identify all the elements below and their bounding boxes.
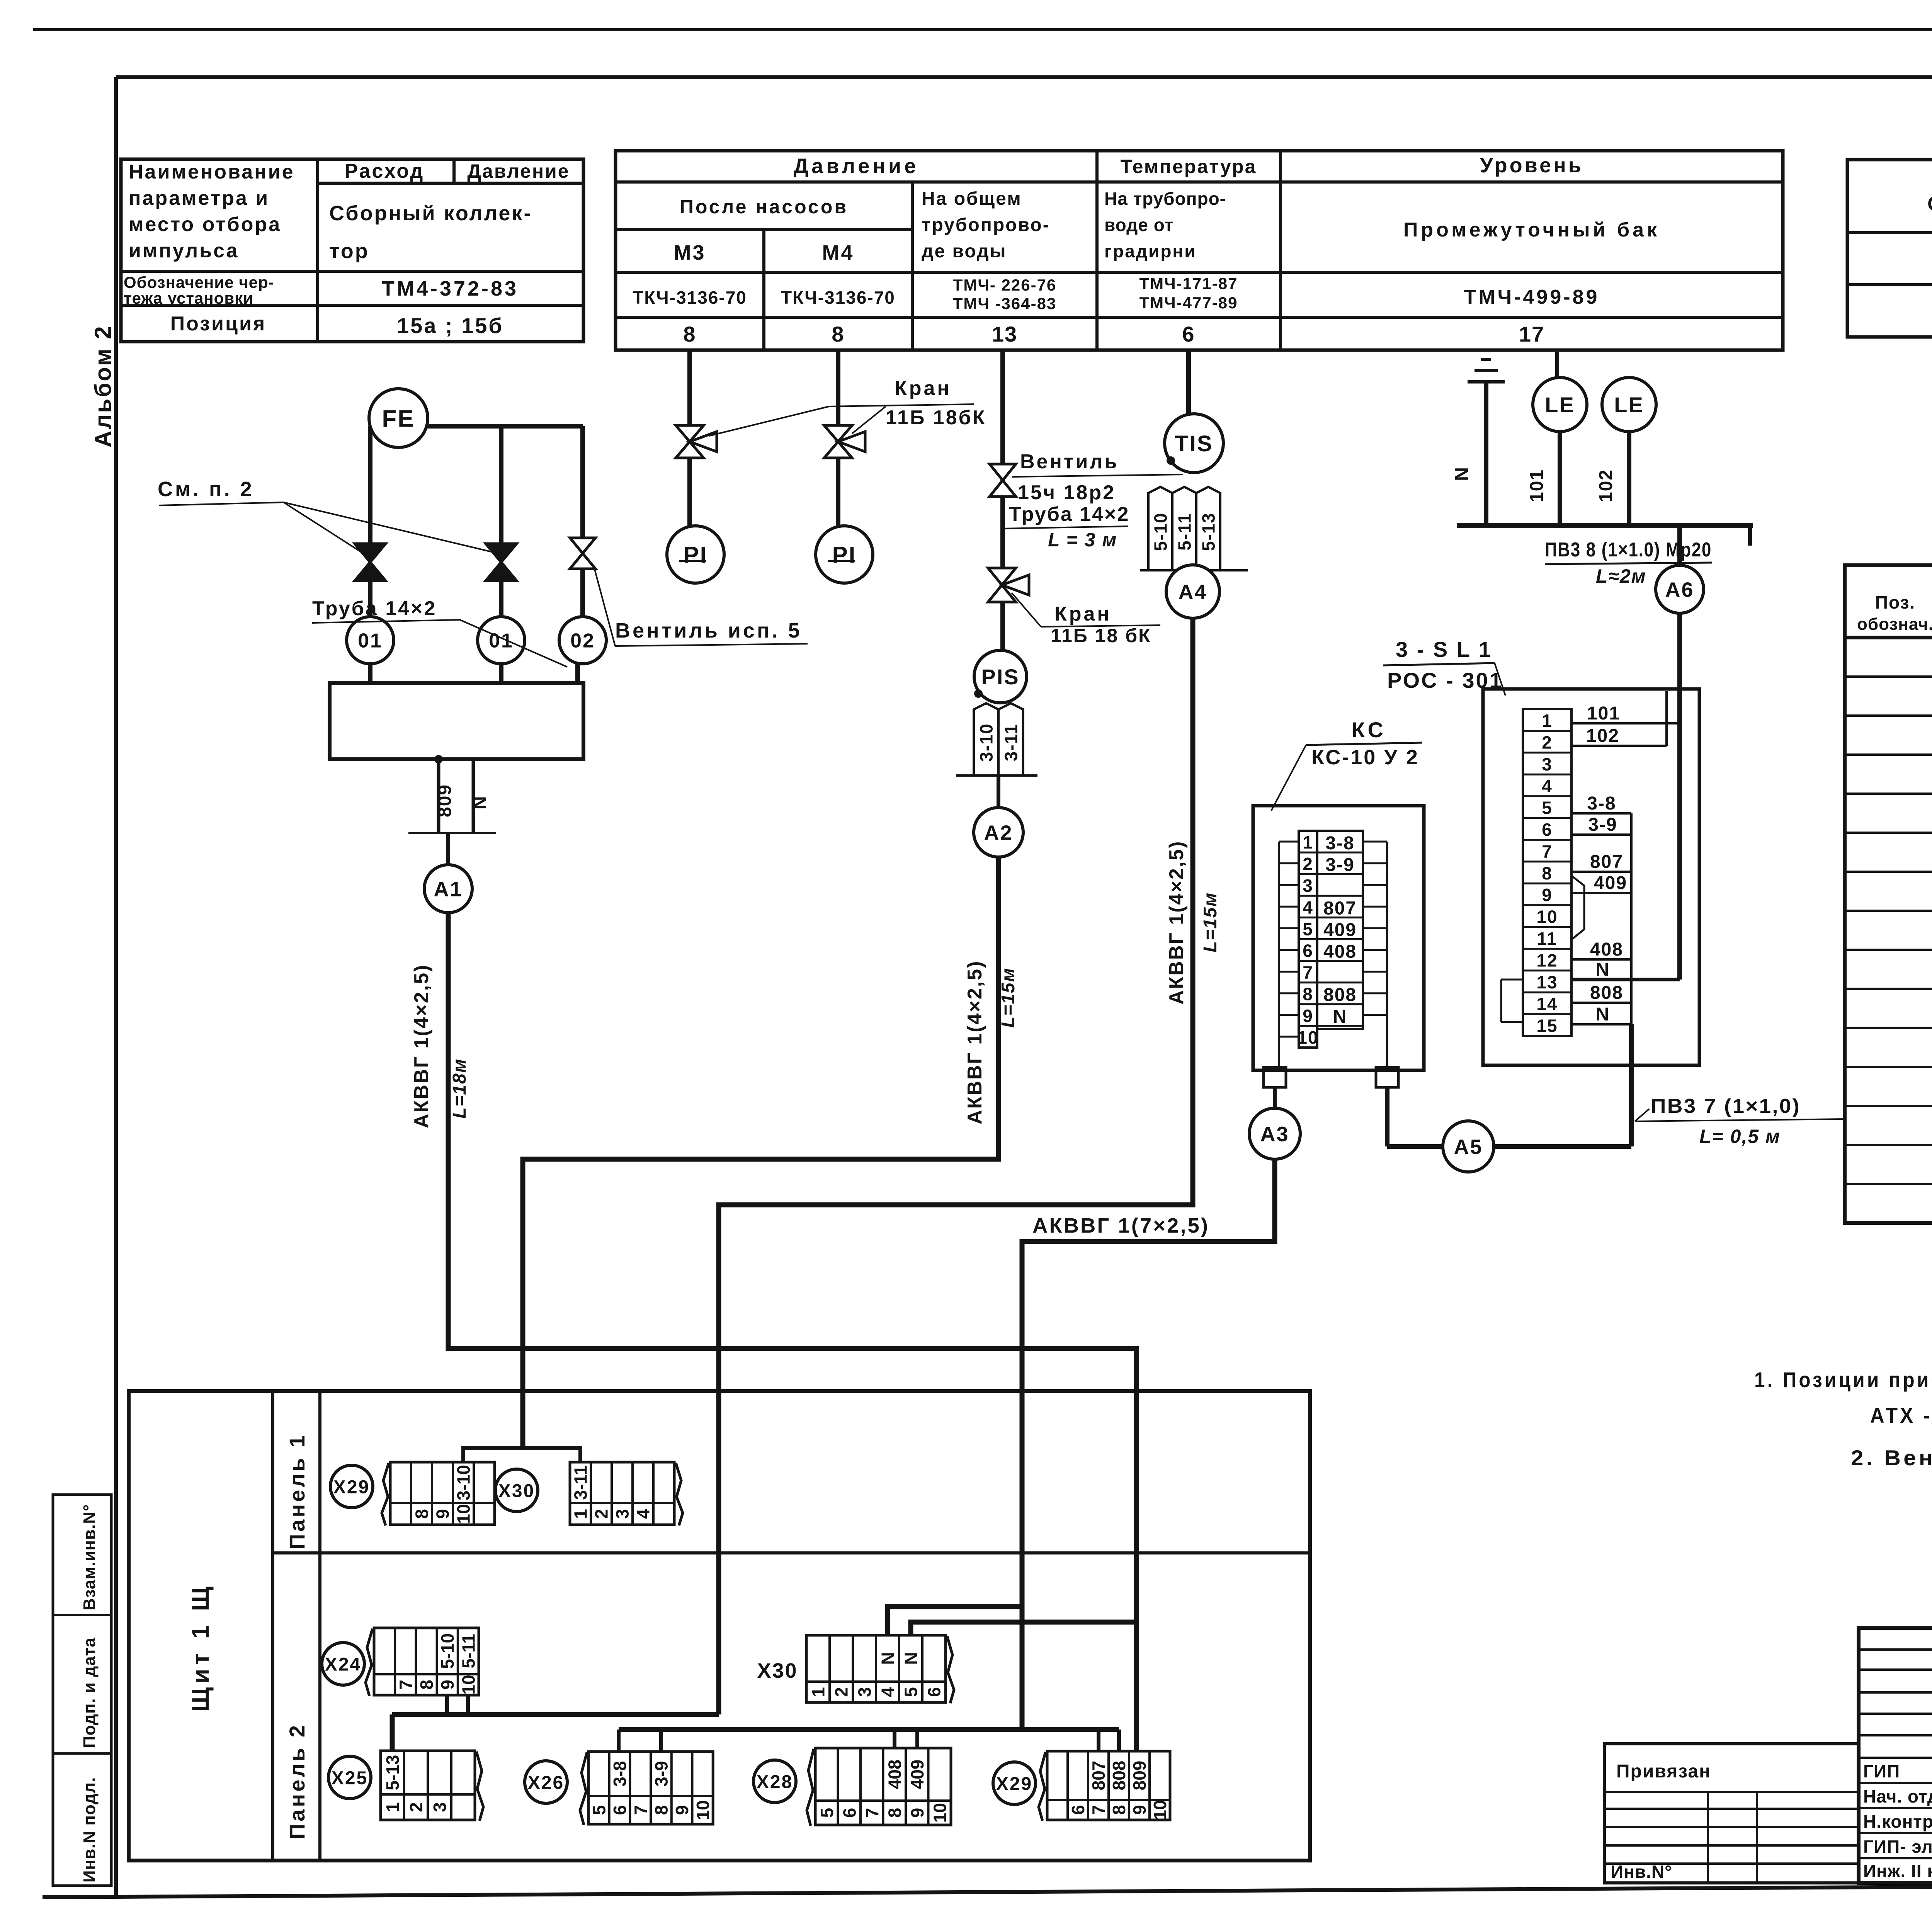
wire A3 panel bus [619,1727,1119,1732]
flow transmitter box [330,683,583,759]
svg-text:А3: А3 [1260,1122,1289,1146]
cable marker A3 [1249,1108,1300,1159]
valve filled 2 (poz 15b) [486,544,517,581]
svg-text:Уровень: Уровень [1480,154,1583,177]
svg-text:L = 3 м: L = 3 м [1048,529,1117,551]
instrument TIS [1165,414,1223,473]
svg-text:1. Позиции приборов указаны: 1. Позиции приборов указаны согласно схе… [1754,1367,1932,1392]
svg-text:обознач.: обознач. [1857,615,1932,634]
svg-text:7: 7 [631,1805,651,1815]
svg-text:PI: PI [832,542,857,568]
svg-text:1: 1 [808,1687,828,1697]
svg-text:1: 1 [1542,711,1553,731]
connector circle X24 [322,1643,364,1685]
svg-text:Температура: Температура [1121,156,1257,177]
wire gradirnya impulse down [1186,350,1191,415]
svg-text:13: 13 [992,322,1017,346]
wire stub X24 5-10 [445,1695,449,1714]
svg-text:Х29: Х29 [333,1477,370,1497]
svg-text:6: 6 [839,1808,859,1818]
svg-text:2: 2 [1542,732,1553,752]
svg-text:Вентиль исп. 5: Вентиль исп. 5 [615,619,802,642]
wire KC to 3-SL1 horizontal [1387,1144,1631,1149]
svg-text:Труба 14×2: Труба 14×2 [312,597,437,620]
wire FE header line [370,424,583,429]
ventil isp5 underline [615,644,808,646]
svg-text:8: 8 [1109,1805,1129,1815]
truba mid underline [1001,526,1128,529]
wire 01a to box [368,664,372,683]
PI underline b [828,560,855,562]
PV3 7 arrow [1635,1109,1649,1121]
svg-text:Труба 14×2: Труба 14×2 [1009,503,1129,526]
svg-text:Кран: Кран [895,377,952,400]
wire M3 to PI [687,458,692,526]
svg-text:9: 9 [907,1808,927,1818]
svg-text:10: 10 [693,1800,713,1820]
svg-text:N: N [878,1652,898,1665]
3-SL1 terminal strip [1523,709,1571,1036]
ground bus line [1457,523,1753,528]
svg-text:9: 9 [437,1680,457,1690]
frame bottom line [43,1883,1932,1897]
svg-text:Промежуточный бак: Промежуточный бак [1403,219,1660,241]
svg-text:1: 1 [1303,832,1313,852]
wire A1 branch N to X30 [911,1622,1136,1635]
sheet top border line [33,28,1932,31]
svg-text:L= 0,5 м: L= 0,5 м [1699,1126,1781,1147]
svg-text:9: 9 [1303,1006,1313,1026]
svg-text:3: 3 [430,1802,450,1812]
3-SL1 left tick r15 [1501,1021,1523,1023]
svg-text:10: 10 [1536,907,1558,927]
wire to A1 [446,833,450,866]
svg-text:PI: PI [684,542,708,568]
3-SL1 leader [1495,663,1505,696]
svg-text:3-11: 3-11 [1001,724,1021,762]
wire gland to A3 [1273,1087,1277,1109]
svg-text:Давление: Давление [467,160,570,182]
svg-text:Вентиль: Вентиль [1020,451,1119,473]
leader Sm p 2 underline [159,502,284,505]
svg-text:809: 809 [1129,1761,1150,1791]
svg-text:место отбора: место отбора [129,213,281,236]
table: parts list (poz/naimenovanie/kol/primechanie) [1845,565,1932,1223]
ventil underline [1012,474,1183,477]
svg-text:3-10: 3-10 [976,723,997,762]
svg-text:9: 9 [672,1805,692,1815]
svg-text:А1: А1 [434,878,463,901]
svg-text:4: 4 [633,1509,653,1519]
svg-text:10: 10 [1297,1027,1318,1048]
svg-text:5-13: 5-13 [383,1755,403,1790]
wire cable A3 run [1022,1159,1275,1730]
svg-text:7: 7 [1303,963,1313,983]
tag box 3-11 [998,703,1023,776]
svg-text:L=15м: L=15м [1200,892,1221,952]
valve open isp.5 [570,538,595,569]
kran underline [829,404,974,406]
svg-text:7: 7 [862,1808,882,1818]
svg-text:М3: М3 [673,241,706,264]
svg-text:Инж. II к.: Инж. II к. [1863,1861,1932,1881]
svg-text:РОС - 301: РОС - 301 [1387,668,1503,692]
svg-text:5-11: 5-11 [1175,513,1195,551]
svg-text:7: 7 [1542,841,1553,861]
svg-text:808: 808 [1323,985,1357,1005]
wire A2 jog to X29/X30 [463,1448,580,1462]
svg-text:8: 8 [1303,984,1313,1004]
svg-text:9: 9 [433,1509,453,1519]
svg-text:См. п. 2: См. п. 2 [158,478,254,501]
instrument LE 2 [1602,378,1656,432]
svg-text:1: 1 [383,1802,403,1812]
svg-text:А2: А2 [984,821,1013,844]
kran mid underline [1041,625,1160,627]
tick line under 809/N [408,832,496,834]
svg-text:Х24: Х24 [325,1654,361,1675]
three-way cock 11B18bk M3 [676,425,717,458]
svg-text:10: 10 [1150,1800,1170,1820]
wire to A2 [997,776,1000,808]
3-SL1 POC-301 box [1483,689,1699,1065]
svg-text:ТМЧ-171-87: ТМЧ-171-87 [1139,274,1238,293]
terminal block X29 panel1 [382,1462,495,1526]
tick under 5-1x [1140,569,1248,571]
KC terminal strip [1279,831,1387,1048]
svg-text:ТКЧ-3136-70: ТКЧ-3136-70 [781,287,895,308]
svg-text:АТХ - 2, АТХ - 3.: АТХ - 2, АТХ - 3. [1870,1403,1932,1427]
svg-text:6: 6 [1182,322,1195,346]
kran mid leader [1012,593,1041,627]
svg-text:8: 8 [1542,863,1553,883]
svg-text:4: 4 [1542,776,1553,796]
svg-text:L=18м: L=18м [449,1058,470,1119]
frame left line [114,77,118,1896]
svg-text:102: 102 [1596,469,1616,502]
svg-text:Давление: Давление [794,155,919,178]
three-way cock 11B18bK mid [988,568,1029,602]
svg-text:02: 02 [570,630,595,652]
svg-text:L≈2м: L≈2м [1596,565,1646,587]
terminal block X29 bottom [1039,1751,1170,1821]
svg-text:де воды: де воды [922,241,1007,262]
cabinet divider 2 [318,1391,321,1861]
wire LE2 down [1627,432,1631,526]
junction dot at box [435,756,442,763]
wire M3 impulse down [687,350,692,428]
svg-text:Х29: Х29 [996,1774,1032,1794]
svg-text:ТМ4-372-83: ТМ4-372-83 [382,277,519,300]
ground symbol [1468,359,1505,382]
svg-text:408: 408 [1323,942,1357,962]
svg-text:Нач. отд.: Нач. отд. [1863,1786,1932,1806]
svg-text:807: 807 [1088,1761,1109,1791]
wire M4 impulse down [836,350,840,428]
svg-text:ТМЧ-499-89: ТМЧ-499-89 [1464,286,1600,308]
svg-text:На трубопро-: На трубопро- [1104,189,1226,209]
svg-text:3-9: 3-9 [1588,815,1617,835]
panel divider line [273,1551,1310,1554]
svg-text:Инв.N подл.: Инв.N подл. [80,1777,99,1883]
svg-text:12: 12 [1536,950,1558,970]
cable marker A1 [424,865,472,913]
svg-text:10: 10 [454,1504,474,1524]
svg-text:На общем: На общем [922,189,1022,209]
wire pipe 2 down [499,426,503,546]
svg-text:15а ; 15б: 15а ; 15б [397,313,503,338]
svg-text:импульса: импульса [129,240,239,262]
cable marker A2 [974,808,1023,857]
leader Sm p 2 to valve1 [284,502,363,553]
wire stub X29 808 [1117,1730,1121,1751]
svg-text:М4: М4 [822,241,854,264]
connector circle X29 bottom [993,1762,1036,1804]
ventil isp5 leader [594,568,615,646]
svg-text:8: 8 [884,1808,905,1818]
truba underline [312,620,460,623]
svg-text:5: 5 [1303,919,1313,939]
wire pipe 3 down [580,426,585,540]
svg-text:809: 809 [435,784,455,817]
svg-text:3: 3 [1542,754,1553,774]
wire A4 panel bus [392,1712,719,1717]
three-way cock 11B18bk M4 [824,425,865,458]
svg-text:6: 6 [610,1805,630,1815]
wire valve3 to circle 02 [580,569,585,617]
svg-text:3-8: 3-8 [610,1761,630,1786]
3-SL1 bracket rows 9-11 [1572,876,1584,939]
svg-text:Х26: Х26 [528,1772,564,1793]
kran leader to M4 valve [852,406,886,434]
svg-text:3-9: 3-9 [1325,855,1354,875]
svg-text:ТМЧ- 226-76: ТМЧ- 226-76 [953,276,1057,294]
svg-text:Н.контр.: Н.контр. [1863,1811,1932,1832]
svg-text:807: 807 [1323,898,1357,918]
svg-text:5: 5 [817,1808,837,1818]
wire N drop [472,759,475,833]
wire stub X24 5-11 [466,1695,470,1714]
svg-text:Поз.: Поз. [1875,592,1915,612]
svg-text:Х30: Х30 [757,1659,798,1682]
KC gland left [1264,1067,1286,1087]
wire A6 to N row13 [1573,978,1680,981]
svg-text:Щит 1 Щ: Щит 1 Щ [187,1583,214,1712]
svg-text:2. Вентили поставляются ко: 2. Вентили поставляются комплектно с при… [1851,1446,1932,1470]
svg-text:Х28: Х28 [757,1772,793,1792]
svg-text:N: N [1451,466,1473,481]
wire 02 to box [575,664,580,683]
table: parameter name / flow / pressure [121,159,583,342]
svg-text:А5: А5 [1454,1135,1483,1158]
svg-text:Сборный коллек-: Сборный коллек- [329,202,532,225]
svg-text:17: 17 [1519,322,1544,346]
svg-text:8: 8 [651,1805,672,1815]
svg-text:ГИП: ГИП [1863,1761,1900,1781]
svg-text:Обозначение чер-: Обозначение чер- [124,273,274,291]
privyazan stamp box [1604,1744,1859,1883]
svg-text:9: 9 [1542,885,1553,905]
left stamp column box [53,1495,111,1886]
svg-text:ТКЧ-3136-70: ТКЧ-3136-70 [633,287,747,308]
svg-text:АКВВГ 1(7×2,5): АКВВГ 1(7×2,5) [1032,1214,1209,1237]
svg-text:8: 8 [412,1509,432,1519]
svg-text:Обозначение: Обозначение [1927,193,1932,215]
svg-text:КС-10 У 2: КС-10 У 2 [1311,746,1419,769]
svg-text:8: 8 [683,322,696,346]
svg-text:6: 6 [1068,1805,1088,1815]
3-SL1 tag column [1571,691,1677,1025]
svg-text:Альбом 2: Альбом 2 [90,325,116,447]
svg-text:Кран: Кран [1054,603,1112,625]
LE1 top stub [1555,352,1559,378]
svg-text:409: 409 [907,1760,927,1789]
kran leader to M3 valve [709,406,829,436]
tag box 3-10 [974,703,998,776]
svg-text:10: 10 [930,1803,950,1823]
KC underline [1306,743,1422,745]
wire stub X28 408 [893,1730,896,1748]
svg-text:102: 102 [1586,726,1619,746]
svg-text:градирни: градирни [1104,241,1196,261]
instrument circle 01 a [347,617,394,664]
3-SL1 left bracket [1500,980,1502,1022]
cable marker A5 [1443,1121,1494,1172]
3-SL1 underline [1383,663,1495,665]
svg-text:5-13: 5-13 [1199,512,1219,551]
svg-text:11Б 18 бК: 11Б 18 бК [1051,625,1151,646]
wire valve2 to circle 01 [499,581,503,617]
wire stub X29 807 [1097,1730,1100,1751]
connector circle X26 [525,1761,567,1803]
svg-text:2: 2 [832,1687,852,1697]
svg-text:Расход: Расход [345,160,425,182]
bus right hook [1748,526,1752,546]
svg-text:FE: FE [382,405,415,432]
connector circle X29 panel1 [330,1465,373,1508]
terminal block X30 panel1 [570,1462,683,1526]
connector circle X25 [328,1756,371,1799]
svg-text:409: 409 [1594,873,1627,893]
svg-text:тежа установки: тежа установки [124,289,253,307]
table: designation / name legend [1847,160,1932,337]
svg-text:N: N [1333,1007,1347,1027]
tag box 5-13 [1196,487,1220,570]
table: pressure / temperature / level [616,151,1783,350]
svg-text:1: 1 [571,1509,591,1519]
terminal block X28 [807,1748,951,1826]
svg-text:АКВВГ 1(4×2,5): АКВВГ 1(4×2,5) [964,960,986,1124]
svg-text:N: N [1596,1004,1610,1025]
connector circle X28 [753,1760,796,1803]
svg-text:L=15м: L=15м [998,968,1019,1028]
wire ground down [1484,382,1488,526]
instrument PI M4 [816,526,873,583]
svg-text:2: 2 [1303,854,1313,874]
svg-text:PIS: PIS [981,665,1019,689]
svg-text:N: N [901,1652,921,1665]
svg-text:5-10: 5-10 [1151,512,1171,551]
svg-text:трубопрово-: трубопрово- [922,215,1050,235]
svg-text:15: 15 [1536,1016,1558,1036]
svg-text:3 - S L 1: 3 - S L 1 [1396,637,1492,662]
wire up into 3-SL1 [1629,1024,1634,1146]
svg-text:3-9: 3-9 [651,1761,672,1786]
PV3 8 underline [1545,563,1712,564]
svg-text:101: 101 [1587,703,1620,724]
svg-text:LE: LE [1614,393,1644,417]
svg-text:6: 6 [1542,820,1553,840]
svg-text:2: 2 [406,1802,426,1812]
svg-text:После насосов: После насосов [680,196,848,218]
frame top line [116,75,1932,79]
svg-text:4: 4 [878,1687,898,1697]
svg-text:3-11: 3-11 [571,1465,591,1500]
terminal block X26 [580,1752,713,1825]
svg-text:10: 10 [458,1675,478,1694]
PIS junction dot [975,690,982,697]
svg-text:01: 01 [358,630,383,652]
wire LE1 down [1558,432,1562,526]
svg-text:5-10: 5-10 [437,1633,457,1669]
svg-text:ГИП- эл.: ГИП- эл. [1863,1837,1932,1857]
KC leader [1271,745,1306,811]
svg-text:ПВ3 7 (1×1,0): ПВ3 7 (1×1,0) [1651,1095,1801,1117]
instrument PIS [974,650,1027,703]
svg-text:408: 408 [884,1760,905,1789]
svg-text:Х25: Х25 [332,1768,368,1788]
KC left internal bus [1278,842,1280,1067]
svg-text:5: 5 [1542,798,1553,818]
instrument PI M3 [667,526,724,583]
cable marker A6 [1656,565,1704,613]
svg-text:11: 11 [1537,929,1558,949]
wire cable A2 run [523,857,998,1448]
svg-text:3-8: 3-8 [1325,833,1354,854]
svg-text:808: 808 [1109,1761,1129,1791]
wire 01b to box [499,664,503,683]
svg-text:параметра и: параметра и [129,187,269,209]
svg-text:Подп. и дата: Подп. и дата [80,1637,99,1748]
svg-text:TIS: TIS [1175,431,1213,456]
wire bus to A6 [1677,526,1682,566]
instrument circle 02 [559,617,606,664]
wire cable A1 run [448,913,1136,1751]
PV3 7 leader line [1635,1119,1845,1121]
svg-text:N: N [1596,959,1610,980]
svg-text:9: 9 [1129,1805,1150,1815]
wire A3 branch N to X30 [888,1607,1022,1635]
svg-text:ПВ3 8 (1×1.0) Мр20: ПВ3 8 (1×1.0) Мр20 [1545,539,1712,561]
svg-text:8: 8 [417,1680,437,1690]
KC gland right [1376,1067,1398,1087]
svg-text:14: 14 [1536,994,1558,1014]
svg-text:тор: тор [329,240,369,263]
svg-text:6: 6 [1303,941,1313,961]
svg-text:4: 4 [1303,897,1313,917]
wire M pipe 1 down [368,426,372,546]
svg-text:Панель 2: Панель 2 [285,1723,309,1839]
svg-text:808: 808 [1590,983,1623,1003]
cable marker A4 [1166,565,1219,618]
svg-text:3: 3 [612,1509,633,1519]
instrument LE 1 [1533,378,1587,432]
svg-text:Позиция: Позиция [170,313,267,335]
leader Sm p 2 to valve2 [284,502,492,552]
svg-text:N: N [470,795,490,810]
svg-text:3: 3 [855,1687,875,1697]
svg-text:А4: А4 [1178,580,1207,604]
